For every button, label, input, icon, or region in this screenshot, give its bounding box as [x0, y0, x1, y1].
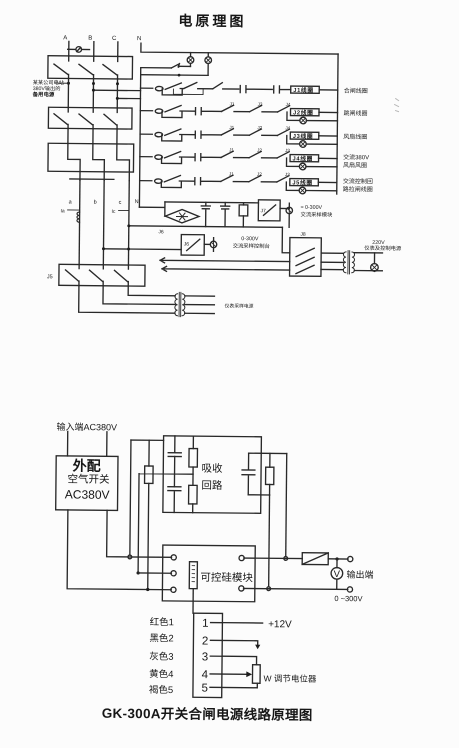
wire c to T1 top: [128, 286, 175, 296]
voltmeter PV: [331, 559, 343, 589]
coil J1: [291, 86, 320, 94]
wire phase C top: [117, 42, 119, 56]
wire pin3 stub: [210, 655, 222, 657]
label 褐色5: [149, 684, 173, 696]
wire T1 out mid: [185, 304, 215, 306]
wire pin4 stub: [210, 673, 222, 675]
svg-text:≈ 0-300V: ≈ 0-300V: [301, 205, 323, 211]
wire J8 to T2 mid: [321, 261, 343, 263]
terminal c5: [239, 586, 244, 591]
fuse F2: [205, 53, 212, 76]
wire bus2: [138, 572, 171, 574]
svg-text:N: N: [137, 36, 141, 42]
wire module lead down: [192, 589, 194, 613]
svg-text:风扇风圈: 风扇风圈: [343, 161, 367, 169]
transformer T2 secondary winding: [352, 252, 355, 273]
svg-text:J1: J1: [229, 147, 234, 152]
wire fuse to terminal: [328, 558, 348, 560]
svg-text:3: 3: [202, 651, 209, 663]
capacitor C3: [168, 436, 181, 487]
wire T1 out bottom: [185, 312, 215, 314]
rung2 wire from rail: [141, 87, 153, 89]
svg-text:J3: J3: [258, 102, 263, 107]
rung5 wire from rail: [140, 156, 152, 158]
rung5 contact J1: [221, 147, 249, 157]
wire QF out right to bus1: [107, 510, 172, 557]
terminal output plus: [348, 556, 353, 561]
svg-text:空气开关: 空气开关: [67, 472, 110, 485]
rung3 contact J3: [250, 102, 278, 112]
svg-text:4: 4: [202, 669, 209, 681]
rectifier bridge VD: [165, 209, 199, 223]
label sampling module: [300, 205, 333, 219]
label 黄色4: [149, 668, 173, 680]
coil J3: [290, 132, 319, 140]
wire rail to rectifier: [139, 202, 165, 216]
title 电原理图: [178, 12, 246, 29]
svg-text:C: C: [112, 36, 117, 42]
node dot voltmeter tap: [335, 557, 338, 560]
svg-text:J6: J6: [184, 242, 190, 248]
rung6 wire from rail: [140, 180, 152, 182]
wire line a down: [78, 180, 81, 264]
lamp branch rung3: [287, 112, 338, 124]
svg-text:跳闸线圈: 跳闸线圈: [343, 109, 367, 117]
wire pin1 stub: [211, 622, 223, 624]
rung6 NO contact: [179, 178, 221, 185]
title bottom: [102, 705, 313, 723]
resistor R3: [188, 436, 197, 513]
CT box: [48, 143, 134, 172]
node junction circle vA-bus1: [128, 555, 132, 559]
wire line b down: [102, 180, 105, 264]
wire T2 out top: [355, 252, 383, 254]
switch J5 blade b: [89, 265, 103, 286]
svg-text:J1: J1: [229, 171, 234, 176]
svg-text:J5线圈: J5线圈: [292, 178, 313, 186]
svg-text:Ic: Ic: [112, 209, 116, 215]
rung3 pushbutton contact: [155, 105, 182, 117]
label input AC380V: [56, 421, 117, 433]
svg-text:J2: J2: [257, 148, 262, 153]
label T1 output: [225, 302, 254, 309]
wire RC bottom link: [248, 494, 269, 496]
svg-text:备用电源: 备用电源: [32, 90, 55, 98]
lamp HL0 on A-B stub: [68, 47, 90, 53]
wire phase C to CT: [116, 129, 118, 144]
label 输出端: [347, 569, 374, 580]
svg-text:J4线圈: J4线圈: [293, 154, 314, 162]
wire output bottom from c5: [244, 588, 348, 589]
wire pin5 stub: [210, 686, 222, 688]
label potentiometer: [264, 673, 317, 684]
svg-text:B: B: [88, 36, 92, 42]
transformer T2 primary winding: [343, 252, 346, 273]
CT loop phase B: [93, 144, 105, 181]
potentiometer RP: [252, 665, 260, 684]
label rung4: [343, 133, 367, 141]
wire output top from c4: [244, 557, 302, 560]
transformer T1 core: [179, 292, 181, 316]
svg-text:输入端AC380V: 输入端AC380V: [56, 421, 117, 433]
rung3 contact J4: [278, 102, 291, 112]
rung1 upper link to fuse1: [179, 65, 190, 67]
svg-text:电原理图: 电原理图: [178, 12, 246, 29]
wire stub text to phase A: [55, 82, 69, 84]
rung4 contact J4: [277, 125, 290, 135]
svg-text:交流采样模块: 交流采样模块: [300, 210, 333, 218]
wire T2 out bottom: [354, 269, 382, 271]
right rail: [337, 54, 338, 194]
faint scan marks: [395, 99, 399, 112]
wire a to T1 bottom: [79, 286, 176, 314]
node dot b tee: [102, 247, 130, 250]
wire coil J4 to rail: [319, 157, 337, 159]
svg-text:J1: J1: [230, 101, 235, 106]
wire dc bus bottom: [129, 226, 283, 227]
fuse F1: [187, 53, 194, 67]
rung5 contact J2: [249, 148, 277, 158]
wire T1 out top: [185, 295, 215, 297]
snubber box 吸收回路: [163, 436, 262, 513]
wire QF out left to bus3: [67, 510, 172, 590]
rung1 wire: [141, 67, 172, 69]
svg-text:b: b: [94, 200, 97, 206]
svg-text:J8: J8: [300, 232, 306, 238]
switch QS1 blade A: [54, 56, 69, 79]
wire pin2 stub: [210, 639, 222, 641]
rung2 pushbutton contact: [155, 83, 182, 95]
switch J5 box: [59, 264, 145, 286]
wire coil J3 to rail: [319, 135, 337, 137]
rung4 NO contact: [180, 131, 222, 138]
label text left of switches: [32, 78, 64, 98]
svg-text:J7: J7: [261, 208, 267, 214]
wire pin1 to +12V: [222, 622, 262, 624]
wire tap B to left rail: [93, 89, 140, 91]
label +12V: [268, 619, 292, 630]
terminal c4: [239, 555, 244, 560]
wire vA snubber left: [130, 440, 131, 555]
wire arrow feed bottom: [162, 266, 290, 272]
wire b to T1 mid: [103, 286, 175, 305]
wire dc bus to J8 box: [282, 227, 290, 252]
svg-text:吸收: 吸收: [202, 462, 224, 475]
svg-text:GK-300A开关合闸电源线路原理图: GK-300A开关合闸电源线路原理图: [102, 705, 313, 723]
rung4 contact J2: [249, 125, 277, 135]
lamp branch rung4: [287, 136, 338, 148]
wire pin3 to pot top: [222, 656, 257, 665]
wire J8 to T2 top: [321, 252, 343, 254]
label 220V: [364, 240, 402, 252]
wire RC top link: [249, 452, 287, 454]
rung4 pushbutton contact: [155, 129, 182, 141]
terminal output minus: [347, 587, 352, 592]
wire pin4 wiper arrow: [222, 673, 247, 675]
wire phase B to CT: [92, 129, 94, 144]
label rung3: [343, 109, 367, 117]
left rail: [139, 68, 140, 207]
wire vB mid tee: [138, 474, 193, 572]
trigger module inside: [189, 562, 197, 589]
svg-text:J6: J6: [158, 229, 164, 235]
svg-text:A: A: [63, 35, 67, 41]
rung6 contact J2: [249, 172, 277, 182]
svg-text:J2线圈: J2线圈: [293, 108, 314, 116]
wire vC with resistor R2: [144, 440, 154, 587]
wire input lead left: [67, 431, 69, 455]
svg-text:a: a: [69, 199, 73, 205]
svg-text:外配: 外配: [73, 457, 101, 473]
svg-text:Ia: Ia: [61, 208, 65, 214]
CT loop phase A: [68, 143, 81, 180]
svg-text:交流控制回: 交流控制回: [343, 177, 373, 185]
svg-text:褐色5: 褐色5: [149, 684, 173, 696]
wire phase A top: [68, 41, 70, 55]
capacitor C1: [201, 202, 210, 226]
contactor KM box: [48, 107, 132, 129]
rung1 knife switch: [171, 64, 179, 68]
node C label: [112, 36, 117, 42]
terminal c2: [171, 571, 176, 576]
wire tap C to left rail: [117, 97, 140, 99]
svg-text:0 ~300V: 0 ~300V: [334, 594, 362, 603]
node dot c-line tee: [127, 224, 130, 227]
wire top link vA to box: [131, 439, 164, 441]
wire arrow feed top: [160, 258, 290, 264]
switch QS1 box: [48, 56, 133, 79]
label 红色1: [150, 616, 174, 628]
pin 2: [202, 636, 209, 648]
coil mark on line a: [77, 212, 80, 222]
wire input lead right: [106, 432, 108, 456]
wire b tee to J6: [103, 248, 181, 251]
svg-text:J2: J2: [257, 172, 262, 177]
rung3 NO contact: [180, 108, 222, 115]
wire phase A mid: [67, 78, 69, 107]
svg-text:J3: J3: [285, 148, 290, 153]
switch J5 blade a: [65, 264, 79, 285]
fuse FU box: [302, 553, 328, 565]
wire R4 drop to lower bus: [268, 495, 271, 587]
node a label: [69, 198, 139, 206]
svg-text:N: N: [135, 199, 139, 205]
pin 1: [202, 618, 209, 630]
rung2 contact K2: [213, 83, 239, 89]
rung6 contact J3: [277, 172, 290, 182]
wire J8 to T2 bottom: [321, 268, 343, 270]
switch QS1 blade C: [103, 56, 118, 79]
svg-text:风扇线圈: 风扇线圈: [343, 133, 367, 141]
rung1 return wire: [141, 74, 208, 77]
capacitor C5: [242, 453, 255, 495]
rung6 pushbutton contact: [154, 175, 181, 187]
pin 3: [202, 651, 209, 663]
lamp HL7: [280, 203, 293, 227]
label rung2 合闸线圈: [344, 87, 368, 95]
wire coil J5 to rail: [318, 181, 336, 183]
label output range: [334, 594, 362, 603]
capacitor C4: [168, 487, 181, 513]
lamp HL9: [371, 253, 379, 272]
transformer T1 primary winding: [175, 294, 178, 316]
label 黑色2: [149, 632, 173, 644]
transformer T2 core: [348, 251, 350, 274]
svg-text:J4: J4: [286, 102, 291, 107]
relay contact J7 box: [258, 200, 280, 221]
pin 5: [201, 683, 208, 695]
capacitor C2: [221, 203, 230, 227]
svg-text:J1线圈: J1线圈: [293, 86, 314, 94]
svg-text:J4: J4: [285, 126, 290, 131]
svg-text:黄色4: 黄色4: [149, 668, 173, 680]
resistor R4: [265, 453, 274, 495]
contactor KM blade A: [54, 107, 68, 128]
label rung6 two lines: [343, 177, 373, 193]
switch J5 blade c: [114, 265, 128, 286]
svg-text:交流380V: 交流380V: [343, 153, 369, 161]
switch QS1 blade B: [79, 56, 94, 79]
svg-text:某某公司电站: 某某公司电站: [33, 78, 64, 86]
node dot vC-bus3: [146, 588, 149, 591]
wire phase B top: [93, 42, 95, 56]
rung4 wire from rail: [140, 133, 152, 135]
rung2 bypass loop: [173, 89, 203, 94]
resistor R1: [239, 203, 248, 227]
svg-text:J3: J3: [285, 172, 290, 177]
rung4 contact J1: [221, 125, 249, 135]
svg-text:合闸线圈: 合闸线圈: [344, 87, 368, 95]
node dots taps: [92, 89, 119, 100]
wire CT lower shelf: [70, 178, 114, 180]
wire coil J2 to rail: [319, 111, 337, 113]
label 灰色3: [149, 651, 173, 663]
pin 4: [202, 669, 209, 681]
wire v right drop to bus1: [285, 454, 288, 557]
node dot rung1: [178, 74, 181, 77]
contactor KM blade B: [79, 108, 93, 129]
wire phase C mid: [116, 79, 118, 108]
svg-text:AC380V: AC380V: [65, 487, 110, 501]
wire Ia stub: [68, 209, 129, 212]
lamp branch rung5: [286, 158, 337, 170]
rung3 wire from rail: [140, 110, 152, 112]
rung5 pushbutton contact: [155, 151, 182, 163]
node Ia label: [61, 208, 116, 215]
svg-text:+12V: +12V: [268, 619, 292, 630]
relay contact J8 box: [290, 232, 322, 277]
transformer T1 secondary winding: [182, 294, 185, 316]
rung5 NO contact: [180, 154, 222, 161]
breaker QF box 外配: [56, 456, 118, 511]
svg-text:仪表采样电源: 仪表采样电源: [225, 302, 254, 309]
node junction circle R4-lower bus: [267, 587, 271, 591]
wire line c down: [127, 181, 130, 265]
rung2 NO contact b: [274, 86, 291, 93]
svg-text:2: 2: [202, 636, 209, 648]
label sampling output: [233, 236, 270, 250]
wire coil J1 to rail: [319, 89, 337, 91]
svg-text:5: 5: [201, 683, 208, 695]
wire phase A to CT: [67, 128, 69, 143]
svg-text:1: 1: [202, 618, 209, 630]
label J6: [158, 229, 164, 235]
svg-text:回路: 回路: [201, 479, 223, 492]
wire N drop to rail: [141, 43, 338, 54]
label J5: [47, 274, 53, 280]
svg-text:交流采样控制台: 交流采样控制台: [233, 242, 270, 250]
svg-text:输出端: 输出端: [347, 569, 374, 580]
svg-text:黑色2: 黑色2: [149, 632, 173, 644]
svg-text:W 调节电位器: W 调节电位器: [264, 673, 317, 684]
svg-text:J1: J1: [229, 125, 234, 130]
wire pin2 with down arrow: [222, 640, 258, 645]
node N label: [137, 36, 141, 42]
contactor KM blade C: [104, 108, 117, 129]
lamp branch rung6: [286, 182, 337, 194]
wire phase B mid: [92, 79, 94, 108]
rung2 contact K1: [180, 82, 213, 89]
lamp HL6: [204, 238, 217, 252]
node dot vB-bus2: [136, 571, 139, 574]
svg-text:J2: J2: [257, 125, 262, 130]
svg-text:J3线圈: J3线圈: [293, 132, 314, 140]
node dots phases y85: [67, 82, 119, 85]
svg-text:V: V: [334, 569, 341, 580]
rung6 contact J1: [221, 171, 249, 181]
rung2 NO contact a: [240, 86, 272, 93]
node B label: [88, 36, 92, 42]
CT loop phase C: [117, 144, 130, 181]
terminal c1: [171, 555, 176, 560]
terminal c3: [171, 587, 176, 592]
node A label: [63, 35, 67, 41]
svg-text:红色1: 红色1: [150, 616, 174, 628]
coil J5: [290, 178, 319, 186]
coil J2: [290, 108, 319, 116]
svg-text:c: c: [119, 200, 122, 206]
svg-text:灰色3: 灰色3: [149, 651, 173, 663]
wire dc bus top: [165, 201, 258, 204]
svg-text:0-300V: 0-300V: [241, 236, 259, 242]
relay contact J6 box: [181, 235, 204, 256]
svg-text:J5: J5: [47, 274, 53, 280]
svg-text:仪表及控制电源: 仪表及控制电源: [364, 244, 402, 252]
svg-text:路拉闸线圈: 路拉闸线圈: [343, 185, 373, 193]
thyristor module box: [162, 545, 255, 602]
svg-text:可控硅模块: 可控硅模块: [200, 571, 253, 585]
terminal strip box: [193, 613, 223, 697]
wire pin5 to pot bottom: [222, 683, 258, 688]
label rung5 two lines: [343, 153, 369, 169]
rung5 contact J3: [277, 148, 290, 158]
node junction circle v-bus1: [284, 557, 288, 561]
rung3 contact J1: [222, 101, 250, 111]
coil J4: [290, 154, 319, 162]
